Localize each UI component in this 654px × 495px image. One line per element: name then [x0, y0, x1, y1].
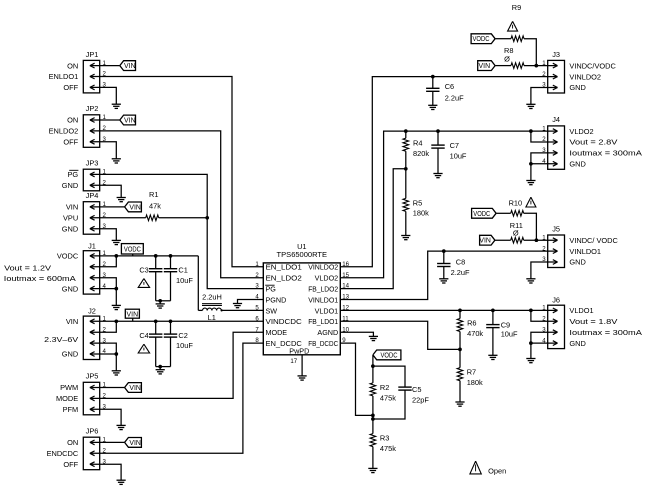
svg-text:OFF: OFF — [63, 460, 78, 469]
svg-text:2: 2 — [255, 272, 259, 279]
svg-text:Vout = 1.8V: Vout = 1.8V — [569, 317, 617, 326]
svg-text:R3: R3 — [380, 433, 389, 442]
svg-text:GND: GND — [62, 224, 78, 233]
svg-text:VIN: VIN — [479, 63, 491, 70]
svg-text:C4: C4 — [139, 331, 148, 340]
svg-text:J2: J2 — [88, 307, 96, 316]
svg-text:VIN: VIN — [129, 385, 141, 392]
svg-text:47k: 47k — [149, 201, 161, 210]
svg-text:VIN: VIN — [127, 311, 139, 318]
svg-text:ON: ON — [67, 116, 78, 125]
svg-text:GND: GND — [62, 181, 78, 190]
svg-text:VIN: VIN — [129, 204, 141, 211]
svg-text:1: 1 — [255, 261, 259, 268]
svg-text:OFF: OFF — [63, 138, 78, 147]
svg-text:R9: R9 — [512, 3, 521, 12]
svg-text:GND: GND — [62, 284, 78, 293]
svg-text:C6: C6 — [445, 82, 454, 91]
svg-text:C1: C1 — [178, 265, 187, 274]
svg-text:VINLDO1: VINLDO1 — [569, 247, 601, 256]
svg-text:3: 3 — [255, 283, 259, 290]
svg-text:TPS65000RTE: TPS65000RTE — [277, 250, 328, 259]
svg-text:C2: C2 — [178, 331, 187, 340]
svg-text:PWM: PWM — [60, 383, 78, 392]
svg-text:C3: C3 — [139, 265, 148, 274]
svg-text:VIN: VIN — [66, 317, 78, 326]
svg-text:2.2uF: 2.2uF — [445, 93, 464, 102]
svg-text:GND: GND — [569, 258, 585, 267]
svg-text:ENLDO1: ENLDO1 — [49, 72, 79, 81]
svg-text:ENLDO2: ENLDO2 — [49, 127, 79, 136]
svg-text:R7: R7 — [467, 367, 476, 376]
svg-text:R10: R10 — [509, 199, 523, 208]
svg-text:R8: R8 — [504, 46, 513, 55]
svg-text:R1: R1 — [149, 190, 158, 199]
svg-text:VIN: VIN — [129, 440, 141, 447]
svg-text:EN_LDO2: EN_LDO2 — [266, 274, 302, 283]
svg-text:VODC: VODC — [473, 36, 490, 43]
svg-text:VLDO1: VLDO1 — [569, 306, 593, 315]
svg-text:VINLDO1: VINLDO1 — [308, 295, 338, 304]
svg-text:MODE: MODE — [266, 328, 288, 337]
svg-text:C9: C9 — [501, 320, 510, 329]
svg-text:Open: Open — [488, 467, 506, 476]
svg-text:R4: R4 — [413, 138, 422, 147]
svg-text:GND: GND — [569, 339, 585, 348]
svg-text:22pF: 22pF — [412, 396, 429, 405]
svg-text:PGND: PGND — [266, 295, 287, 304]
svg-text:820k: 820k — [413, 149, 429, 158]
svg-text:17: 17 — [290, 358, 297, 365]
svg-text:AGND: AGND — [317, 328, 338, 337]
svg-text:Vout = 1.2V: Vout = 1.2V — [4, 263, 51, 272]
svg-text:VLDO2: VLDO2 — [315, 274, 339, 283]
svg-text:VODC: VODC — [124, 246, 141, 253]
svg-text:R5: R5 — [413, 199, 422, 208]
svg-text:Ø: Ø — [513, 229, 519, 238]
svg-text:2.2uH: 2.2uH — [202, 292, 222, 301]
svg-text:FB_LDO2: FB_LDO2 — [308, 285, 338, 294]
svg-text:J5: J5 — [552, 224, 560, 233]
svg-text:MODE: MODE — [56, 394, 78, 403]
svg-text:6: 6 — [255, 315, 259, 322]
svg-text:Ioutmax = 600mA: Ioutmax = 600mA — [4, 274, 76, 283]
svg-text:R6: R6 — [467, 318, 476, 327]
svg-text:180k: 180k — [413, 209, 429, 218]
svg-text:J6: J6 — [552, 296, 560, 305]
svg-text:VODC: VODC — [473, 211, 490, 218]
svg-text:VINDC/ VODC: VINDC/ VODC — [569, 236, 618, 245]
svg-text:R2: R2 — [380, 383, 389, 392]
svg-text:JP1: JP1 — [86, 50, 99, 59]
svg-text:Ø: Ø — [504, 55, 510, 64]
svg-text:GND: GND — [569, 83, 585, 92]
svg-text:VIN: VIN — [124, 118, 136, 125]
svg-text:2.3V–6V: 2.3V–6V — [44, 335, 78, 344]
svg-text:470k: 470k — [467, 329, 483, 338]
svg-text:VINLDO2: VINLDO2 — [569, 72, 601, 81]
svg-text:FB_DCDC: FB_DCDC — [308, 339, 338, 348]
svg-text:JP4: JP4 — [86, 191, 99, 200]
svg-text:VLDO2: VLDO2 — [569, 127, 593, 136]
svg-text:VINDC/VODC: VINDC/VODC — [569, 61, 616, 70]
svg-text:ON: ON — [67, 61, 78, 70]
svg-text:JP5: JP5 — [86, 372, 99, 381]
svg-text:2.2uF: 2.2uF — [451, 268, 470, 277]
svg-text:EN_LDO1: EN_LDO1 — [266, 263, 302, 272]
svg-text:10uF: 10uF — [176, 341, 193, 350]
svg-text:10uF: 10uF — [450, 151, 467, 160]
svg-text:C5: C5 — [412, 385, 421, 394]
svg-text:180k: 180k — [467, 378, 483, 387]
svg-text:10uF: 10uF — [176, 276, 193, 285]
svg-text:C8: C8 — [456, 258, 465, 267]
svg-text:OFF: OFF — [63, 83, 78, 92]
svg-text:FB_LDO1: FB_LDO1 — [308, 317, 338, 326]
svg-text:VPU: VPU — [63, 214, 78, 223]
svg-text:J3: J3 — [552, 50, 560, 59]
svg-text:PFM: PFM — [63, 405, 79, 414]
svg-text:VIN: VIN — [66, 203, 78, 212]
svg-text:VINDCDC: VINDCDC — [266, 317, 302, 326]
svg-text:Ioutmax = 300mA: Ioutmax = 300mA — [569, 149, 642, 158]
svg-text:10uF: 10uF — [501, 330, 518, 339]
svg-text:VLDO1: VLDO1 — [315, 306, 339, 315]
svg-text:7: 7 — [255, 326, 259, 333]
svg-text:VINLDO2: VINLDO2 — [308, 263, 338, 272]
svg-text:L1: L1 — [208, 313, 216, 322]
svg-text:VODC: VODC — [381, 352, 398, 359]
svg-text:JP3: JP3 — [86, 159, 99, 168]
svg-text:PG: PG — [266, 285, 277, 294]
svg-text:SW: SW — [266, 306, 278, 315]
svg-text:PG: PG — [68, 170, 79, 179]
svg-text:Vout = 2.8V: Vout = 2.8V — [569, 138, 617, 147]
svg-text:ON: ON — [67, 438, 78, 447]
svg-text:J1: J1 — [88, 241, 96, 250]
svg-text:C7: C7 — [450, 141, 459, 150]
svg-text:JP6: JP6 — [86, 427, 99, 436]
svg-text:ENDCDC: ENDCDC — [47, 449, 79, 458]
svg-text:475k: 475k — [380, 394, 396, 403]
svg-text:GND: GND — [569, 160, 585, 169]
svg-text:8: 8 — [255, 337, 259, 344]
svg-text:Ioutmax = 300mA: Ioutmax = 300mA — [569, 328, 642, 337]
svg-text:PwPD: PwPD — [289, 346, 309, 355]
svg-text:J4: J4 — [552, 115, 560, 124]
svg-text:475k: 475k — [380, 444, 396, 453]
svg-text:VODC: VODC — [57, 252, 79, 261]
svg-text:VIN: VIN — [479, 238, 491, 245]
svg-text:GND: GND — [62, 350, 78, 359]
svg-text:VIN: VIN — [124, 63, 136, 70]
svg-text:JP2: JP2 — [86, 104, 99, 113]
